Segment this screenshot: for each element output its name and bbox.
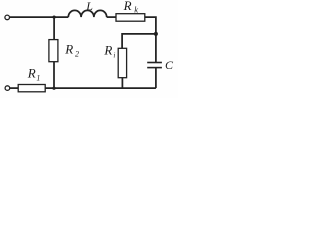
inductor L [68, 10, 106, 17]
terminal T1 (input, top left) [5, 15, 10, 20]
capacitor C bottom plate [147, 67, 162, 69]
wire T2 to R1 [10, 87, 18, 89]
terminal T2 (input, bottom left) [5, 86, 10, 91]
wire R2 top lead [53, 17, 55, 39]
svg-text:R: R [103, 43, 112, 58]
svg-text:1: 1 [36, 74, 40, 83]
svg-text:R: R [64, 41, 73, 56]
svg-text:L: L [85, 0, 93, 13]
node junction top of R2 [53, 16, 56, 19]
wire R2 bottom lead [53, 62, 55, 88]
resistor Ri [118, 48, 126, 77]
node junction right column [154, 32, 158, 36]
resistor R2 [49, 40, 58, 62]
wire C bottom lead [155, 68, 157, 89]
wire link to Ri [122, 34, 156, 48]
svg-text:C: C [165, 58, 174, 72]
wire top rail left [10, 16, 69, 18]
node junction bottom of R2 [52, 87, 55, 90]
svg-text:k: k [134, 5, 138, 15]
wire inductor to Rk [107, 16, 116, 18]
wire Ri bottom lead [121, 78, 123, 89]
svg-text:R: R [123, 0, 132, 13]
resistor R1 [18, 85, 45, 92]
capacitor C top plate [147, 62, 162, 64]
svg-text:i: i [113, 52, 115, 60]
svg-text:R: R [27, 65, 36, 80]
wire Rk to right column [145, 17, 156, 62]
svg-text:2: 2 [75, 49, 79, 58]
wire bottom rail [45, 87, 156, 89]
resistor Rk [116, 14, 145, 22]
